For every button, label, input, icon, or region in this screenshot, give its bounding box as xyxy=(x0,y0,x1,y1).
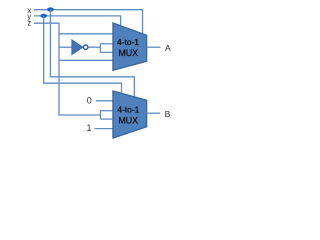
wire z horizontal, down, then right to bottom fanout xyxy=(34,23,100,115)
svg-text:4-to-1: 4-to-1 xyxy=(117,37,139,47)
wire z to top MUX input 1 xyxy=(59,33,113,35)
wire output A xyxy=(147,46,161,48)
wire inverter output xyxy=(88,46,100,48)
wire x horizontal then down into top MUX select xyxy=(34,10,143,35)
svg-text:z: z xyxy=(27,19,31,28)
wire y horizontal then down into top MUX select xyxy=(34,16,121,26)
svg-text:A: A xyxy=(165,43,171,53)
wire 0 stub to bottom MUX input 1 xyxy=(96,100,113,102)
junction dot on x wire xyxy=(47,7,54,11)
svg-text:B: B xyxy=(165,109,171,119)
junction dot on y wire xyxy=(40,14,47,18)
inverter U1 triangle xyxy=(72,40,83,55)
svg-text:0: 0 xyxy=(87,95,92,105)
wire 1 stub to bottom MUX input 4 xyxy=(95,128,114,130)
svg-text:1: 1 xyxy=(86,123,91,133)
mux U3 bottom 4-to-1 xyxy=(113,91,147,138)
svg-text:4-to-1: 4-to-1 xyxy=(117,105,139,115)
wire fanout vertical bottom MUX xyxy=(99,111,101,119)
wire z to inverter input xyxy=(59,46,72,48)
wire x branch down-right to bottom MUX select xyxy=(50,10,134,98)
wire fanout to bottom MUX input 3 xyxy=(100,118,113,120)
wire z to top MUX input 4 xyxy=(59,59,113,61)
wire fanout to top MUX input 2 xyxy=(100,43,113,45)
svg-text:MUX: MUX xyxy=(118,48,138,58)
inverter bubble xyxy=(84,45,88,49)
wire output B xyxy=(147,112,161,114)
mux U2 top 4-to-1 xyxy=(113,23,147,70)
wire fanout vertical top MUX xyxy=(99,44,101,53)
wire y branch down-right to bottom MUX select xyxy=(44,16,122,94)
wire fanout to bottom MUX input 2 xyxy=(100,110,113,112)
svg-text:MUX: MUX xyxy=(118,115,138,125)
wire fanout to top MUX input 3 xyxy=(100,51,113,53)
